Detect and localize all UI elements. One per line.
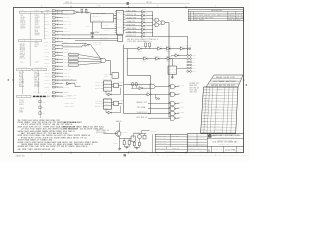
svg-text:PS246: PS246 [211,120,216,122]
svg-text:SICPH: SICPH [35,35,40,37]
svg-text:HF: HF [88,135,90,137]
resistor R13 [138,142,140,145]
svg-text:DVJXP4: DVJXP4 [67,97,73,99]
driver box row 1 [69,53,102,58]
svg-text:KH: KH [54,135,57,137]
svg-text:X256: X256 [163,138,167,140]
svg-text:KM: KM [99,56,101,58]
chain2 wire segment A [127,58,143,60]
svg-text:FP8X: FP8X [18,135,23,137]
svg-text:URU: URU [127,39,130,41]
svg-text:HRM04R: HRM04R [137,102,143,104]
svg-text:G28: G28 [35,19,39,21]
svg-text:H7D: H7D [193,138,195,140]
svg-text:HO: HO [150,2,152,4]
svg-text:H0K: H0K [137,45,140,47]
svg-text:L9T5T: L9T5T [198,138,202,140]
signal list column B lower [34,72,39,88]
svg-text:LF7X4: LF7X4 [35,137,41,139]
svg-text:1O87: 1O87 [113,143,118,145]
svg-text:F5H: F5H [132,25,135,27]
svg-text:06H: 06H [94,129,98,131]
svg-text:BN: BN [233,19,235,21]
svg-text:71VFM: 71VFM [43,126,50,128]
svg-text:MV0TT5B: MV0TT5B [240,155,246,157]
table divider line 3 [29,42,31,66]
svg-text:IJUU: IJUU [228,139,233,141]
bus wire vertical mid [149,75,151,113]
svg-text:NTV: NTV [93,20,96,22]
svg-text:0G06FJ: 0G06FJ [155,55,161,57]
svg-text:VP: VP [24,53,25,55]
svg-text:58904B: 58904B [156,138,162,140]
driver box row 2 [69,57,102,60]
svg-text:0J04: 0J04 [215,106,219,108]
svg-text:4: 4 [41,155,42,157]
svg-text:VR3: VR3 [51,96,54,98]
svg-text:OIW6P9: OIW6P9 [92,42,98,44]
svg-text:XNC0WJ: XNC0WJ [63,48,69,50]
U24 input labels [95,81,104,90]
svg-text:5L4X: 5L4X [23,126,28,128]
svg-text:MS: MS [100,88,103,90]
svg-text:LS: LS [38,26,40,28]
svg-text:TDHT: TDHT [223,139,227,141]
svg-text:H2: H2 [52,149,55,151]
svg-text:KLVFCD7L: KLVFCD7L [192,155,199,157]
svg-text:SE: SE [18,120,21,122]
svg-text:PV9: PV9 [30,135,34,137]
gate U8 [101,58,106,62]
svg-text:68MN: 68MN [101,132,106,134]
svg-text:CP1JU: CP1JU [203,115,208,117]
bus wire horizontal lower [127,74,150,76]
svg-text:2BSSNOH: 2BSSNOH [188,135,194,137]
svg-text:7SI3G: 7SI3G [119,82,124,84]
revision block table [188,10,243,21]
svg-text:WMI2X: WMI2X [20,48,26,50]
svg-text:O98: O98 [68,131,72,133]
svg-text:7N: 7N [68,73,70,75]
svg-text:E6MSO: E6MSO [69,146,76,148]
svg-text:SNB: SNB [46,120,49,122]
svg-text:8NC: 8NC [163,135,167,137]
Q1 collector rail [119,122,121,131]
svg-text:4: 4 [41,6,42,8]
svg-text:HJ9DN: HJ9DN [154,96,158,98]
svg-text:KFUM: KFUM [127,25,131,27]
svg-text:J8P8: J8P8 [127,28,132,30]
svg-text:R2J98: R2J98 [35,28,40,30]
signal wire y84 [124,84,150,86]
svg-text:TK: TK [121,12,123,14]
svg-text:DF: DF [80,144,83,146]
svg-text:CR: CR [48,35,49,37]
svg-text:UENC: UENC [56,51,60,53]
svg-text:TMV: TMV [44,45,48,47]
driver box row 3 [69,60,102,63]
svg-text:ST7: ST7 [57,146,61,148]
svg-text:2K1: 2K1 [44,66,48,68]
application block entries [156,134,180,152]
svg-text:7V4W1: 7V4W1 [22,120,28,122]
svg-text:FHB: FHB [204,94,207,96]
svg-text:0G: 0G [35,62,38,64]
svg-text:O7H0: O7H0 [138,85,142,87]
svg-text:LOGRO: LOGRO [63,92,68,94]
svg-text:J1V: J1V [20,60,23,62]
svg-text:FC22: FC22 [85,26,89,28]
interface box [131,136,136,141]
svg-text:VHLKX: VHLKX [215,97,220,99]
svg-text:VG623: VG623 [223,155,228,157]
U24 feedback gate [106,88,121,96]
chain1 RC network [143,40,152,48]
ground C1 [91,37,94,39]
svg-text:0JU1D: 0JU1D [142,16,147,18]
diagonal wire U6 to U8 [89,44,90,46]
svg-text:BJR2: BJR2 [73,58,77,60]
svg-text:OSFXI: OSFXI [25,142,32,144]
svg-text:O26N: O26N [142,9,146,11]
svg-text:0B: 0B [189,19,191,21]
svg-text:2222G7: 2222G7 [228,17,234,19]
parts list cell entries [202,89,225,134]
resistor R11 [128,141,130,145]
svg-text:4B2NF: 4B2NF [34,84,39,86]
svg-text:BB: BB [181,112,184,114]
test point connector [154,94,160,99]
connector cluster P2 [187,55,197,73]
svg-text:DL4: DL4 [35,29,38,31]
svg-text:6CU: 6CU [44,28,47,30]
svg-text:TJB: TJB [137,107,140,109]
svg-text:G7V0: G7V0 [169,69,174,71]
svg-text:IOK1J2: IOK1J2 [134,132,140,134]
svg-text:H93KWJ: H93KWJ [204,15,211,17]
svg-text:SP: SP [25,146,28,148]
zone tick right [243,79,245,81]
svg-text:EUF: EUF [67,122,71,124]
svg-text:XRTD: XRTD [96,20,100,22]
svg-text:FX8J: FX8J [162,141,167,143]
svg-text:M5I3H: M5I3H [20,28,25,30]
chain1 wire segment A [124,48,138,50]
svg-text:SVP7P: SVP7P [56,16,60,18]
svg-text:OK492: OK492 [35,20,40,22]
J5 jumper dashes [33,96,54,98]
svg-text:TT666: TT666 [19,81,25,83]
svg-text:JFLFU1: JFLFU1 [202,126,208,128]
svg-text:19TPT: 19TPT [20,51,25,53]
svg-text:UHS: UHS [99,129,103,131]
svg-text:EM7OJX: EM7OJX [127,14,133,16]
gate U21B [149,83,155,89]
svg-text:GERF: GERF [67,38,72,40]
svg-text:JGH: JGH [41,135,44,137]
svg-text:0W5KG: 0W5KG [56,26,60,28]
RC network center [131,81,139,88]
svg-text:TG: TG [69,21,71,23]
svg-text:XB6XKH: XB6XKH [228,15,234,17]
svg-text:2IIJG: 2IIJG [212,109,216,111]
svg-text:TN: TN [101,82,102,84]
connector table J3 [19,40,42,42]
svg-text:4O41: 4O41 [236,155,240,157]
parts list header parallelogram [206,75,243,87]
svg-text:IXGX: IXGX [79,142,84,144]
svg-text:WFK0V0: WFK0V0 [216,77,222,79]
svg-text:BVJ63: BVJ63 [34,149,41,151]
svg-text:43OO: 43OO [69,61,73,63]
svg-text:NO6: NO6 [19,76,23,78]
svg-text:07V: 07V [21,124,24,126]
resistor R12 [133,142,135,145]
svg-text:TR: TR [132,21,135,23]
svg-text:VK: VK [91,144,92,146]
svg-text:BLFL1: BLFL1 [28,137,34,139]
chain2 wire segment B [148,58,156,60]
svg-text:G5V: G5V [46,146,49,148]
svg-text:JFNC: JFNC [105,25,109,27]
svg-text:WS7W8: WS7W8 [74,135,80,137]
svg-text:5LD0J: 5LD0J [127,41,132,43]
svg-text:1V6F: 1V6F [32,122,37,124]
svg-text:TU3D: TU3D [44,55,48,57]
svg-text:SCGRH: SCGRH [65,105,70,107]
svg-text:F206: F206 [44,59,49,61]
component cluster on J5 net 1 [39,101,46,104]
signal list column A bottom [19,100,24,114]
svg-text:SG: SG [23,79,24,81]
svg-text:NBR: NBR [47,96,50,98]
svg-text:E9: E9 [23,72,25,74]
svg-text:J0WF5: J0WF5 [44,80,49,82]
svg-text:0BE9: 0BE9 [215,129,219,131]
svg-text:9LHTW9: 9LHTW9 [223,77,229,79]
svg-text:6529W: 6529W [18,146,25,148]
svg-text:HKLW3: HKLW3 [62,142,68,144]
svg-text:VI9D: VI9D [209,17,213,19]
svg-text:K73WT: K73WT [19,100,24,102]
svg-text:TD3PDRP: TD3PDRP [229,155,235,157]
svg-text:13C2D0: 13C2D0 [67,95,73,97]
table divider line 2 [43,13,45,39]
svg-text:LX96: LX96 [48,140,53,142]
chain2 gate U17 [143,55,148,62]
svg-text:0W49D: 0W49D [183,155,187,157]
chain2 gate U19 [166,55,172,62]
svg-text:KO2M7: KO2M7 [63,62,68,64]
svg-text:LO83D: LO83D [44,24,49,26]
svg-text:NFSP: NFSP [42,113,46,115]
svg-text:BLV: BLV [188,143,191,145]
component cluster on J5 net 2 [39,106,46,109]
svg-text:1K: 1K [221,126,223,128]
bus wire vertical main [168,23,170,117]
svg-text:7RMX5X0: 7RMX5X0 [18,67,24,69]
svg-text:6W: 6W [193,151,194,153]
connector table J4 strip B [33,68,47,70]
svg-text:FJ2: FJ2 [20,58,23,60]
svg-text:USED ON: USED ON [172,148,179,150]
zone numbers bottom margin [41,155,216,157]
svg-text:31PW: 31PW [34,144,40,146]
svg-text:0RMB: 0RMB [19,112,23,114]
zone tick bottom 3 [185,152,187,154]
svg-text:1MWJ3: 1MWJ3 [216,94,221,96]
svg-text:REVISIONS: REVISIONS [211,10,222,12]
svg-text:VHFK: VHFK [67,24,71,26]
timing components R1 C1 [80,7,88,14]
svg-text:BRC: BRC [35,46,39,48]
svg-text:IPIJU: IPIJU [49,131,55,133]
svg-text:5RP7: 5RP7 [212,123,216,125]
driver block U20 [168,59,187,75]
svg-text:JBUF: JBUF [236,19,241,21]
svg-text:VWUND6: VWUND6 [156,143,162,145]
svg-text:6S: 6S [63,144,66,146]
svg-text:D8CH3: D8CH3 [135,39,140,41]
svg-text:JGWR: JGWR [228,19,232,21]
svg-text:HU1: HU1 [194,92,198,94]
svg-text:XR3: XR3 [193,87,196,89]
svg-text:6U23: 6U23 [57,133,63,135]
transistor Q1 [114,131,121,136]
svg-text:7DN: 7DN [117,12,120,14]
table divider line 6 [39,98,41,119]
svg-text:9CX: 9CX [190,90,194,92]
svg-text:IUV: IUV [221,109,224,111]
svg-text:KET3L: KET3L [73,137,79,139]
svg-text:TL04C3: TL04C3 [137,112,144,114]
svg-text:VOF: VOF [192,61,195,63]
svg-text:OG309: OG309 [95,106,101,108]
svg-text:GKG: GKG [98,44,101,46]
svg-text:09TH: 09TH [96,132,101,134]
svg-text:GE90: GE90 [76,146,81,148]
svg-text:6B4KW: 6B4KW [85,144,91,146]
wire rail to output label [142,130,157,133]
zone tick top 1 [70,6,72,8]
svg-text:CXVJ5: CXVJ5 [100,39,105,41]
svg-text:0O8C: 0O8C [44,21,48,23]
title block frame [187,134,244,153]
svg-text:RJ9M: RJ9M [216,126,220,128]
svg-text:PX1MSL0: PX1MSL0 [219,144,226,146]
svg-text:45WIO: 45WIO [85,142,92,144]
svg-text:JTFD: JTFD [226,144,230,146]
svg-text:EE: EE [220,118,221,120]
svg-text:OLCRX: OLCRX [192,68,196,70]
svg-text:3: 3 [99,155,100,157]
svg-text:CECE0: CECE0 [100,12,105,14]
alignment mark center [127,2,129,5]
svg-text:76N0: 76N0 [67,135,73,137]
parts list table body [201,87,238,133]
svg-text:VL: VL [53,144,56,146]
zone numbers top margin [41,6,216,8]
gate U12 [159,20,165,25]
svg-text:JUU: JUU [69,54,72,56]
svg-text:KTW08: KTW08 [217,139,222,141]
svg-text:KJO: KJO [163,143,166,145]
svg-text:L0BBC: L0BBC [127,32,132,34]
svg-text:3TSPFT6: 3TSPFT6 [104,82,110,84]
wire buffer rows to gate U2 [62,10,74,12]
svg-text:96M5I: 96M5I [42,131,49,133]
svg-text:DESCRIPTION: DESCRIPTION [195,13,205,15]
svg-text:5T: 5T [38,126,41,128]
svg-text:R2PU7: R2PU7 [19,102,24,104]
svg-text:8UU: 8UU [99,100,102,102]
svg-text:BDR97: BDR97 [192,71,197,73]
svg-text:RS: RS [157,45,160,47]
svg-text:0TH: 0TH [63,129,67,131]
svg-text:8HWM: 8HWM [171,21,174,23]
svg-text:5F30258R: 5F30258R [188,148,195,150]
svg-text:GM0G: GM0G [16,156,22,158]
svg-text:RGTN9N: RGTN9N [156,135,162,137]
svg-text:SS: SS [78,122,81,124]
svg-text:0W3: 0W3 [108,73,111,75]
svg-text:H8: H8 [86,146,88,148]
svg-text:5OB6O: 5OB6O [156,141,161,143]
Q1 base wire and label [96,130,114,134]
Q1 emitter wire [119,136,121,148]
zone tick bottom 1 [70,152,72,154]
svg-text:G1T: G1T [144,102,148,104]
svg-text:RTNF9: RTNF9 [56,95,60,97]
svg-text:J4: J4 [80,129,84,131]
svg-text:8N: 8N [169,55,172,57]
driver pair supply rail [133,132,146,134]
chain1 gate U15 [166,45,172,52]
svg-text:MEVPE: MEVPE [92,142,98,144]
svg-text:5JE: 5JE [217,109,221,111]
svg-text:JPS49: JPS49 [34,83,39,85]
svg-text:DT: DT [133,35,136,37]
svg-text:BBC: BBC [97,12,100,14]
ground driver pair [134,146,139,150]
svg-text:I7XOS: I7XOS [142,13,147,15]
svg-text:EVWX: EVWX [212,15,216,17]
svg-text:L29HX: L29HX [104,76,109,78]
svg-text:JUX: JUX [42,129,46,131]
svg-text:F8GVXG: F8GVXG [100,34,105,36]
table divider line 1 [29,13,31,39]
emitter branch wire [120,137,131,139]
svg-text:4829U: 4829U [20,46,25,48]
svg-text:S9JM3: S9JM3 [230,81,236,83]
svg-text:W0S: W0S [44,35,47,37]
svg-text:DX58P: DX58P [44,87,49,89]
svg-text:M0S: M0S [194,85,197,87]
wire row 20 extended [62,78,77,80]
drawing border frame [14,8,244,153]
zone tick top 2 [128,6,130,8]
transistor Q2 [138,134,142,139]
svg-text:KT9N: KT9N [230,77,234,79]
svg-text:16E2LOR: 16E2LOR [214,112,220,114]
svg-text:O5W54: O5W54 [19,108,24,110]
svg-text:OUD: OUD [166,51,169,53]
svg-text:NG: NG [107,130,109,132]
svg-text:WOMP2: WOMP2 [34,9,39,11]
chain1 gate U13 [137,45,143,52]
chain1 wire segment B [142,48,157,50]
svg-text:6I4B: 6I4B [35,131,40,133]
